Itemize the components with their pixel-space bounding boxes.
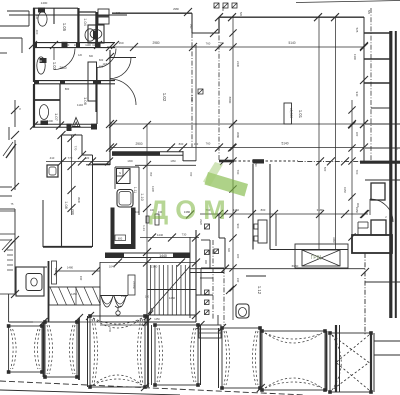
svg-text:500: 500	[323, 167, 327, 172]
stair landing line	[147, 289, 196, 291]
svg-text:1600: 1600	[47, 119, 53, 123]
wall stub	[0, 195, 12, 197]
door swing entry	[370, 199, 393, 222]
svg-text:100: 100	[74, 43, 79, 47]
svg-text:ДОМ: ДОМ	[149, 195, 233, 225]
window hatch marks	[7, 249, 13, 251]
svg-text:1100: 1100	[85, 43, 91, 47]
window grid verticals	[318, 17, 320, 250]
partition in 1.05	[53, 8, 55, 24]
room 1.02 top wall	[112, 12, 192, 14]
svg-text:900: 900	[204, 260, 207, 265]
svg-text:1450: 1450	[169, 296, 176, 300]
dims near 1.09	[55, 270, 100, 272]
cistern box	[40, 58, 47, 63]
svg-text:N: N	[119, 171, 121, 175]
roof marker	[232, 3, 237, 8]
svg-text:3680: 3680	[236, 132, 240, 139]
marker	[214, 249, 219, 254]
svg-text:525: 525	[355, 28, 359, 33]
wall pier	[91, 124, 97, 128]
stair riser	[189, 265, 191, 315]
stair riser	[163, 265, 165, 315]
svg-text:700: 700	[189, 172, 193, 177]
svg-text:950x550: 950x550	[54, 268, 56, 277]
svg-text:760: 760	[236, 170, 240, 175]
stair riser	[154, 265, 156, 315]
svg-text:1160: 1160	[233, 208, 239, 212]
svg-text:800: 800	[65, 87, 70, 91]
south wall of 1.02	[112, 151, 183, 153]
GRShch switchboard	[295, 244, 348, 268]
stair riser	[158, 265, 160, 315]
stair walk line	[148, 266, 190, 314]
vault cell 7	[328, 331, 373, 394]
wall break slash	[6, 144, 16, 158]
svg-text:2980: 2980	[173, 7, 179, 11]
svg-text:240: 240	[236, 278, 240, 283]
wall line	[195, 45, 197, 161]
vault cell 5	[220, 326, 262, 390]
svg-text:180: 180	[145, 296, 150, 299]
svg-text:2430: 2430	[236, 61, 240, 68]
shaft box with diagonal	[117, 169, 131, 184]
marker	[205, 310, 210, 315]
watermark roof slope left	[203, 162, 223, 186]
wall fill	[112, 152, 160, 156]
dim line	[110, 147, 196, 149]
ramp hatch line	[50, 287, 58, 305]
wall pier	[67, 125, 72, 131]
marker	[205, 250, 210, 255]
grid line A	[218, 17, 220, 161]
dim line y47	[107, 46, 364, 48]
floor drain fixture	[236, 304, 249, 318]
grid line	[191, 33, 193, 147]
stair riser	[167, 265, 169, 315]
svg-text:1.10: 1.10	[140, 193, 144, 200]
wall fill south	[111, 244, 136, 249]
west stepped wall 1.12	[218, 214, 220, 238]
fixture boxes	[98, 9, 109, 16]
svg-text:1300: 1300	[151, 186, 155, 192]
wall stub	[0, 208, 15, 210]
duct shaft	[88, 62, 97, 101]
tick	[184, 8, 192, 16]
svg-text:940: 940	[355, 92, 359, 97]
svg-text:300: 300	[236, 254, 240, 259]
svg-text:700: 700	[355, 170, 359, 175]
svg-text:1450: 1450	[71, 292, 77, 296]
svg-text:1950: 1950	[343, 187, 347, 193]
svg-text:1440: 1440	[157, 233, 164, 237]
svg-text:390: 390	[356, 203, 360, 208]
door swing lower	[110, 79, 136, 105]
shaft square	[47, 165, 58, 177]
svg-text:1400: 1400	[41, 1, 48, 5]
svg-text:400: 400	[35, 15, 38, 20]
break slash	[4, 241, 14, 252]
toilet bowl 1.04	[85, 29, 95, 41]
ramp hatch line	[84, 287, 92, 305]
marker	[205, 224, 210, 229]
ramp hatch line	[59, 287, 67, 305]
svg-text:14/6: 14/6	[103, 63, 108, 66]
sink unit	[88, 25, 104, 43]
grid x213	[212, 240, 214, 320]
svg-text:1460: 1460	[63, 43, 70, 47]
svg-text:1.11: 1.11	[133, 187, 137, 193]
svg-text:5140: 5140	[288, 41, 295, 45]
svg-text:900: 900	[236, 224, 240, 229]
right rooms partitions	[364, 32, 392, 34]
svg-text:760: 760	[206, 142, 211, 146]
wall band left of 1.12	[190, 272, 224, 274]
toilet tank 1.04	[93, 31, 97, 40]
svg-text:1360: 1360	[170, 160, 176, 163]
svg-text:520: 520	[239, 12, 242, 17]
stair riser	[150, 265, 152, 315]
wall bottom of 1.09	[43, 246, 92, 248]
svg-text:1.13: 1.13	[142, 225, 146, 231]
door and wall left of 1.02	[109, 50, 111, 165]
small bars fixtures	[146, 216, 149, 223]
svg-text:1950: 1950	[355, 207, 359, 214]
room 1.05 walls	[33, 7, 78, 9]
svg-text:150: 150	[194, 142, 199, 146]
svg-text:770: 770	[74, 146, 78, 151]
wall west of entry	[99, 262, 101, 322]
1.01 top wall	[219, 16, 364, 18]
dim vertical x233	[232, 17, 234, 320]
svg-text:120: 120	[78, 54, 83, 57]
neighbour wall top step	[7, 10, 29, 12]
room 1.04 walls	[79, 11, 96, 13]
toilet tank 1.07	[41, 121, 49, 126]
stair riser	[184, 265, 186, 315]
svg-text:1.04: 1.04	[83, 18, 87, 25]
wall band y42-48	[33, 42, 115, 44]
svg-text:1.08: 1.08	[64, 201, 68, 208]
ground solid line	[0, 390, 180, 395]
pilaster symbol	[258, 220, 267, 243]
svg-text:2980: 2980	[152, 41, 159, 45]
svg-text:1420: 1420	[121, 294, 128, 298]
svg-text:700: 700	[108, 328, 111, 333]
thick south band	[360, 161, 400, 164]
vault cell 2	[43, 320, 79, 379]
east wall 1.01	[363, 17, 365, 161]
svg-text:770: 770	[68, 156, 73, 160]
svg-text:1.07: 1.07	[54, 113, 59, 122]
dim line y161.5	[46, 161, 109, 163]
svg-text:1300: 1300	[127, 160, 133, 163]
ramp hatch line	[67, 287, 75, 305]
marker	[205, 290, 210, 295]
svg-text:600: 600	[118, 237, 123, 241]
svg-text:1480: 1480	[67, 266, 74, 270]
long dim 6960	[190, 268, 365, 270]
svg-text:1.05: 1.05	[62, 23, 67, 32]
rooms 1.06 / 1.07	[33, 84, 35, 127]
svg-text:1.06: 1.06	[83, 97, 88, 106]
bathtub	[117, 190, 133, 208]
svg-text:±0,000: ±0,000	[289, 108, 293, 118]
svg-text:1140: 1140	[77, 103, 83, 107]
svg-text:3930: 3930	[77, 197, 81, 204]
wall right of stove	[48, 261, 50, 322]
vault cell 6	[260, 329, 327, 392]
ramp hatch line	[93, 287, 101, 305]
svg-text:400: 400	[35, 30, 39, 35]
svg-text:ГРЩ: ГРЩ	[311, 255, 322, 261]
section grid x365	[364, 253, 366, 335]
svg-text:760: 760	[149, 172, 153, 177]
misc ticks left wall	[11, 106, 19, 114]
cellar arches	[101, 296, 113, 307]
cluster bottom wall band	[33, 123, 97, 125]
left party wall bottom	[14, 238, 16, 294]
roof marker	[214, 3, 219, 8]
room 1.03	[33, 48, 35, 82]
svg-text:1300: 1300	[353, 54, 357, 61]
level mark box	[284, 103, 292, 124]
ground dashed line	[0, 381, 305, 395]
grid line lower	[223, 269, 225, 325]
svg-text:800: 800	[261, 208, 266, 212]
svg-text:600: 600	[89, 55, 94, 58]
wall stub	[275, 214, 277, 246]
vault band right cap	[335, 325, 337, 392]
vault cell 3	[88, 314, 147, 389]
corridor south line	[100, 262, 196, 264]
dim line y237.5	[140, 237, 199, 239]
dim vertical x71.5	[71, 135, 73, 215]
wall between 1.03/1.07	[34, 99, 60, 101]
wall right of cluster	[96, 12, 98, 48]
sink 1.03	[37, 57, 45, 74]
south wall 1.01 with openings	[219, 160, 234, 163]
dim line y147 right	[196, 147, 364, 149]
dim line y124	[110, 123, 364, 125]
svg-text:1440: 1440	[159, 254, 167, 258]
cavity wall west of 1.12	[252, 164, 254, 250]
svg-text:940: 940	[79, 276, 83, 281]
svg-text:160: 160	[118, 41, 123, 45]
svg-text:1.02: 1.02	[162, 93, 167, 102]
svg-text:8800: 8800	[228, 97, 232, 104]
svg-text:525: 525	[367, 10, 370, 15]
svg-text:750: 750	[189, 24, 193, 29]
stair riser	[180, 265, 182, 315]
door swing right	[97, 49, 116, 68]
connector line above vaults	[33, 321, 100, 323]
svg-text:160: 160	[116, 12, 121, 15]
vault cell 1	[7, 324, 44, 374]
dim vertical x352	[351, 100, 353, 240]
svg-text:800: 800	[179, 142, 184, 146]
window box 2	[371, 220, 386, 235]
party wall right	[389, 31, 392, 318]
right rooms lower lines	[365, 123, 400, 125]
svg-text:730: 730	[182, 233, 187, 237]
svg-text:1.12: 1.12	[257, 286, 262, 295]
stair block	[146, 252, 148, 322]
arrow	[148, 308, 153, 314]
marker	[205, 300, 210, 305]
marker	[198, 89, 203, 94]
svg-text:1450: 1450	[154, 318, 160, 321]
lotok label box	[128, 275, 135, 295]
vault cell 4	[153, 323, 200, 387]
svg-text:300: 300	[355, 132, 359, 137]
wall band y80-84	[34, 80, 115, 82]
left small rooms mid	[0, 233, 15, 235]
toilet bowl 1.05	[38, 12, 47, 26]
svg-text:5140: 5140	[281, 142, 288, 146]
porch steps	[199, 325, 221, 338]
svg-text:410: 410	[135, 210, 140, 214]
north wall segment	[270, 249, 348, 251]
lobby room	[352, 235, 392, 253]
svg-text:300: 300	[227, 248, 230, 253]
svg-text:1.01: 1.01	[298, 110, 303, 119]
Y fixture	[116, 311, 120, 315]
stair riser	[176, 265, 178, 315]
left party wall	[14, 140, 16, 190]
grid line x371	[370, 8, 372, 160]
roof marker	[223, 3, 228, 8]
watermark roof slope right	[205, 172, 249, 197]
ramp hatch	[49, 287, 100, 305]
wall stub	[0, 186, 12, 188]
toilet tank 1.05	[38, 8, 45, 13]
piers between cells	[43, 322, 45, 377]
room 1.08 stepped outline	[61, 135, 63, 247]
corridor dark band	[105, 252, 190, 254]
svg-text:600: 600	[99, 58, 104, 62]
wall east of 1.08/1.09	[92, 164, 94, 247]
dim line y214	[200, 213, 368, 215]
long wall y165	[135, 164, 196, 166]
stove unit	[16, 267, 44, 296]
svg-text:500: 500	[38, 60, 43, 63]
wall pier	[91, 125, 97, 130]
svg-text:3460: 3460	[332, 237, 336, 243]
svg-text:2900: 2900	[135, 142, 142, 146]
dim vertical x147	[146, 125, 148, 325]
ramp hatch line	[76, 287, 84, 305]
wall fill west	[111, 208, 115, 250]
svg-text:2300: 2300	[71, 209, 75, 216]
svg-text:760: 760	[206, 42, 211, 46]
svg-text:410: 410	[50, 156, 55, 160]
svg-text:2660: 2660	[59, 66, 66, 70]
svg-text:420: 420	[85, 156, 90, 160]
wall pier	[253, 159, 265, 163]
door swing 1.03	[54, 49, 75, 70]
scan top edge line	[296, 1, 400, 3]
svg-text:6960: 6960	[292, 264, 299, 268]
neighbour wall stub	[0, 37, 22, 39]
window box	[371, 183, 385, 200]
stair riser	[171, 265, 173, 315]
svg-text:2360: 2360	[151, 265, 158, 269]
vertical label box	[52, 261, 57, 284]
door swing upper	[110, 58, 131, 79]
svg-text:ЛОТОК: ЛОТОК	[132, 281, 134, 289]
corridor walls	[86, 164, 110, 166]
toilet bowl 1.07	[39, 105, 48, 120]
svg-text:760: 760	[220, 42, 225, 45]
left party wall lower	[14, 209, 16, 238]
wall pier	[67, 124, 72, 128]
left party wall upper	[14, 100, 16, 127]
shower triangle	[73, 118, 81, 127]
wall fill east	[131, 208, 136, 250]
